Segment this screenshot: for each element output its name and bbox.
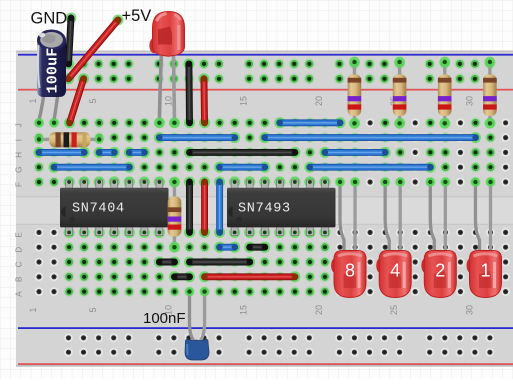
svg-text:D: D bbox=[15, 247, 24, 253]
svg-text:1: 1 bbox=[480, 261, 490, 281]
svg-text:B: B bbox=[15, 277, 24, 282]
resistor R2 (IC1 col10) vertical bbox=[168, 177, 182, 253]
svg-text:2: 2 bbox=[435, 261, 445, 281]
wire G13-G16 blue bbox=[214, 162, 270, 173]
svg-text:100nF: 100nF bbox=[143, 310, 186, 327]
wire rail2-J3 red bbox=[64, 73, 89, 128]
breadboard body bbox=[16, 51, 513, 367]
svg-text:8: 8 bbox=[345, 261, 355, 281]
svg-text:A: A bbox=[15, 291, 24, 297]
wire I9-I14 blue bbox=[154, 132, 240, 143]
LED D4 indicator bbox=[376, 177, 411, 297]
center channel bbox=[16, 197, 513, 224]
wire F13-E13 blue bbox=[214, 177, 225, 238]
svg-text:F: F bbox=[15, 182, 24, 187]
LED D1 indicator bbox=[467, 177, 502, 297]
svg-text:J: J bbox=[15, 123, 24, 127]
wire H7-H8 blue bbox=[124, 147, 150, 158]
svg-text:15: 15 bbox=[239, 305, 249, 315]
svg-text:1: 1 bbox=[28, 98, 38, 103]
wire rail1-J11 black bbox=[183, 58, 195, 128]
svg-text:20: 20 bbox=[314, 305, 324, 315]
svg-text:20: 20 bbox=[314, 96, 324, 106]
wire rail2-J12 red bbox=[198, 73, 210, 128]
main grid holes bottom block rows E-A bbox=[35, 228, 44, 237]
wire +5V wire bbox=[63, 15, 124, 85]
svg-text:30: 30 bbox=[465, 96, 475, 106]
wire F11-E11 black bbox=[184, 177, 195, 238]
resistor R6 pull-up col31 vertical bbox=[483, 57, 497, 129]
bottom red rail line bbox=[18, 363, 513, 365]
svg-text:GND: GND bbox=[31, 10, 68, 28]
LED D8 indicator bbox=[331, 177, 366, 297]
svg-text:5: 5 bbox=[88, 307, 98, 312]
svg-text:15: 15 bbox=[239, 96, 249, 106]
IC U2 SN7493 bbox=[227, 176, 336, 238]
svg-text:SN7404: SN7404 bbox=[72, 202, 125, 217]
wire G2-G7 blue bbox=[49, 162, 135, 173]
wire F12-E12 red bbox=[199, 177, 210, 238]
wire J17-J21 blue bbox=[274, 117, 345, 128]
wire G19-G27 blue bbox=[304, 162, 435, 173]
LED D0 top bbox=[149, 12, 184, 129]
wire C11-C15 black bbox=[184, 257, 255, 268]
wire I16-I30 blue bbox=[259, 132, 481, 143]
main grid holes top block rows J-F bbox=[34, 118, 45, 129]
svg-text:I: I bbox=[15, 139, 24, 141]
svg-text:G: G bbox=[15, 167, 24, 173]
svg-text:C: C bbox=[15, 261, 24, 267]
svg-text:SN7493: SN7493 bbox=[238, 202, 291, 217]
svg-text:10: 10 bbox=[164, 96, 174, 106]
svg-text:100uF: 100uF bbox=[45, 47, 62, 93]
wire H1-H4 blue bbox=[34, 147, 90, 158]
wire D13-D14 blue bbox=[214, 242, 240, 253]
capacitor C2 100nF bbox=[185, 287, 209, 360]
resistor R4 pull-up col25 vertical bbox=[393, 57, 407, 129]
wire GND wire bbox=[63, 13, 77, 70]
resistor R1 1k horizontal bbox=[34, 132, 103, 147]
bottom power rail holes bbox=[64, 333, 73, 342]
wire H5-H6 blue bbox=[94, 147, 120, 158]
svg-text:5: 5 bbox=[88, 98, 98, 103]
top red rail line bbox=[18, 89, 513, 91]
wire B10-B11 black bbox=[169, 271, 195, 282]
svg-text:H: H bbox=[15, 152, 24, 158]
top blue rail line bbox=[18, 54, 513, 56]
IC U1 SN7404 bbox=[60, 176, 169, 238]
capacitor C1 100uF electrolytic bbox=[34, 30, 66, 128]
svg-text:25: 25 bbox=[389, 305, 399, 315]
bottom blue rail line bbox=[18, 327, 513, 329]
svg-text:1: 1 bbox=[28, 307, 38, 312]
resistor R3 pull-up col22 vertical bbox=[348, 57, 362, 129]
svg-text:+5V: +5V bbox=[122, 7, 152, 25]
resistor R5 pull-up col28 vertical bbox=[438, 57, 452, 129]
svg-text:E: E bbox=[15, 232, 24, 237]
LED D2 indicator bbox=[421, 177, 456, 297]
svg-text:4: 4 bbox=[390, 261, 400, 281]
wire C9-C10 black bbox=[154, 257, 180, 268]
wire H11-H18 black bbox=[184, 147, 300, 158]
top power rail holes bbox=[63, 59, 74, 70]
wire H20-H24 blue bbox=[319, 147, 390, 158]
svg-text:30: 30 bbox=[465, 305, 475, 315]
wire D15-D16 black bbox=[244, 242, 270, 253]
wire B12-B18 red bbox=[199, 271, 300, 282]
